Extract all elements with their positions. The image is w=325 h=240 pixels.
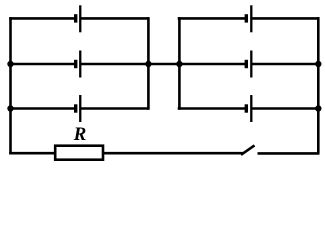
battery cell B6 (right bank, bottom row) xyxy=(246,95,251,122)
svg-text:R: R xyxy=(73,124,87,145)
battery cell B4 (right bank, top row) xyxy=(246,5,251,32)
wire: bottom wire from switch to right bus xyxy=(258,152,320,155)
wire: bottom cell row right segment (right bank) xyxy=(251,107,319,110)
junction dot: right bus / middle row xyxy=(315,61,321,67)
junction dot: left bus / middle row xyxy=(7,61,13,67)
wire: middle row left segment (left bank) xyxy=(9,63,76,66)
wire: series link between the two banks (middle row) xyxy=(147,63,181,66)
switch S (open blade) xyxy=(241,145,255,154)
junction dot: right bank left bus / middle row xyxy=(176,61,182,67)
junction dot: left bank right bus / middle row xyxy=(145,61,151,67)
battery cell B2 (left bank, middle row) xyxy=(76,51,81,78)
wire: middle row right segment (right bank) xyxy=(251,63,319,66)
wire: bottom cell row left segment (right bank) xyxy=(178,107,247,110)
resistor R (rectangle body) xyxy=(55,146,103,160)
battery cell B1 (left bank, top row) xyxy=(76,5,81,32)
wire: middle row right segment (left bank) xyxy=(80,63,149,66)
junction dot: right bus / bottom cell row xyxy=(315,105,321,111)
wire: bottom cell row left segment (left bank) xyxy=(9,107,76,110)
wire: middle row left segment (right bank) xyxy=(178,63,247,66)
battery cell B5 (right bank, middle row) xyxy=(246,51,251,78)
wire: bottom wire from left bus to resistor xyxy=(9,152,56,155)
battery cell B3 (left bank, bottom row) xyxy=(76,95,81,122)
wire: right vertical bus xyxy=(317,17,320,154)
wire: bottom cell row right segment (left bank) xyxy=(80,107,149,110)
wire: top row right segment (left bank) xyxy=(80,17,149,20)
junction dot: left bus / bottom cell row xyxy=(7,105,13,111)
wire: left bank inner-right vertical bus xyxy=(147,17,150,110)
wire: top row left segment (left bank) xyxy=(9,17,76,20)
wire: left vertical bus xyxy=(9,17,12,154)
wire: top row right segment (right bank) xyxy=(251,17,319,20)
wire: bottom wire from resistor to switch xyxy=(102,152,243,155)
wire: top row left segment (right bank) xyxy=(178,17,247,20)
wire: right bank inner-left vertical bus xyxy=(178,17,181,110)
